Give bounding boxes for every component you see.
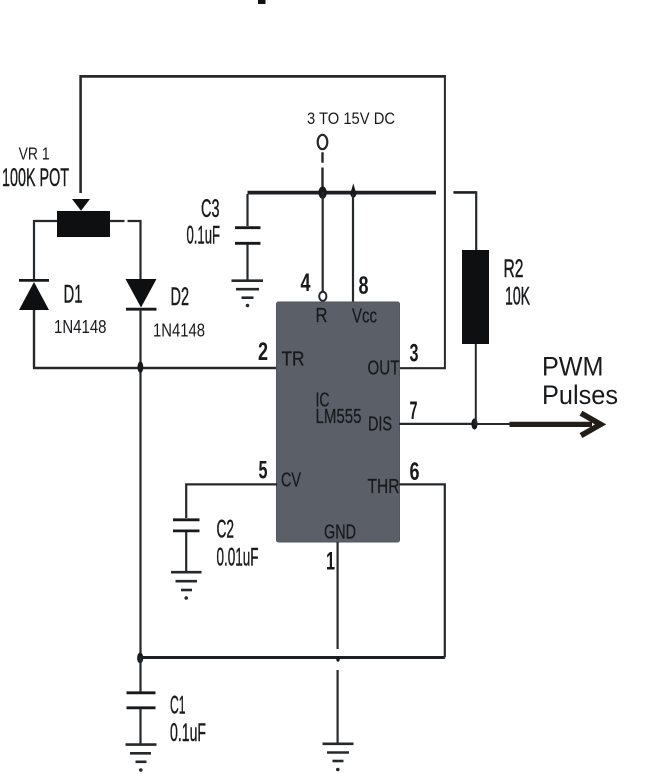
wire: C3 lead from rail	[246, 194, 248, 226]
svg-text:Vcc: Vcc	[352, 306, 377, 328]
resistor R2 body	[462, 250, 489, 344]
wire: C1 top lead	[139, 658, 141, 692]
ground (C1)	[126, 745, 157, 762]
wire: pot right lead (with hop gap) down to D2	[110, 221, 141, 279]
svg-text:OUT: OUT	[368, 358, 400, 380]
wire: DIS pin 7 line	[399, 423, 475, 425]
svg-text:C1: C1	[170, 692, 186, 720]
svg-text:0.1uF: 0.1uF	[187, 222, 221, 250]
svg-text:3 TO 15V DC: 3 TO 15V DC	[307, 109, 395, 128]
wire: TR line to IC pin 2	[33, 367, 277, 370]
wire: GND pin 1 lead down	[337, 542, 339, 743]
svg-text:Pulses: Pulses	[542, 380, 618, 410]
junction node on Vcc rail (pin 4 feed)	[318, 186, 326, 198]
svg-text:100K POT: 100K POT	[2, 164, 69, 192]
svg-text:PWM: PWM	[542, 352, 604, 382]
svg-text:DIS: DIS	[368, 414, 392, 436]
wire: dashed lead from terminal to Vcc rail	[321, 152, 323, 192]
wire: bottom rail	[141, 656, 445, 659]
ground (C2)	[171, 572, 202, 590]
wire: pin 4 lead	[322, 192, 324, 292]
wire: Vcc rail	[248, 191, 437, 195]
svg-text:D1: D1	[64, 281, 83, 309]
capacitor C1 plates	[127, 691, 156, 694]
wire: C2 to ground	[185, 532, 187, 571]
capacitor C2 plates	[173, 518, 200, 521]
svg-text:R: R	[316, 305, 328, 327]
svg-text:8: 8	[359, 272, 369, 300]
PWM output arrowhead	[581, 413, 601, 435]
wire: THR pin 6 to bottom rail	[399, 484, 445, 657]
wire: D1 anode down to TR node	[33, 310, 35, 367]
junction node DIS/R2	[471, 418, 477, 429]
diode D1 triangle	[19, 282, 49, 310]
pin 4 entry circle	[319, 292, 326, 301]
svg-text:1N4148: 1N4148	[153, 320, 205, 341]
IC LM555 body	[277, 302, 400, 542]
wire: pot left lead down to D1	[34, 221, 57, 279]
PWM output arrow shaft	[510, 422, 593, 427]
cropped text remnant top	[258, 0, 266, 4]
wire: R2 bottom lead to DIS junction	[475, 344, 477, 424]
svg-text:1N4148: 1N4148	[54, 316, 107, 337]
supply terminal circle	[318, 135, 328, 149]
capacitor C3 plates	[235, 226, 261, 229]
wire: OUT pin3 feedback to pot wiper (right vertical + top horizontal + left vertical)	[81, 75, 446, 369]
wire: C1 to ground	[139, 709, 141, 744]
potentiometer wiper arrow	[72, 199, 90, 211]
wire: C3 to ground	[246, 245, 248, 280]
junction node pin1/bottom rail	[336, 657, 339, 662]
wire: DIS junction to arrow	[475, 423, 514, 425]
diode D2 triangle	[126, 279, 157, 308]
svg-text:6: 6	[410, 458, 420, 486]
potentiometer VR1 body	[57, 211, 110, 237]
svg-text:CV: CV	[281, 470, 301, 492]
svg-text:C2: C2	[217, 516, 235, 544]
svg-text:7: 7	[410, 397, 418, 425]
diode D1 cathode bar	[19, 279, 49, 282]
svg-text:2: 2	[258, 338, 268, 366]
svg-text:R2: R2	[504, 255, 524, 283]
svg-text:0.1uF: 0.1uF	[170, 719, 206, 747]
ground (C3)	[232, 281, 264, 298]
junction node TR/D2	[138, 361, 144, 373]
svg-text:3: 3	[410, 340, 419, 368]
svg-text:C3: C3	[201, 195, 220, 223]
svg-text:VR 1: VR 1	[19, 144, 50, 164]
svg-text:THR: THR	[368, 476, 400, 498]
svg-text:D2: D2	[171, 283, 190, 311]
svg-text:LM555: LM555	[316, 406, 362, 428]
svg-text:1: 1	[326, 548, 335, 576]
wire: CV pin 5 to C2	[186, 484, 277, 518]
svg-text:GND: GND	[324, 522, 356, 544]
ground (pin 1)	[323, 744, 354, 761]
wire: Vcc rail right segment to R2	[453, 191, 476, 194]
svg-text:TR: TR	[282, 349, 305, 371]
junction node bottom rail left	[137, 653, 143, 664]
diode D2 cathode bar	[126, 308, 157, 311]
wire: D2 cathode down to bottom rail	[139, 309, 141, 657]
svg-text:4: 4	[301, 269, 311, 297]
svg-text:5: 5	[259, 457, 268, 485]
arrow junction pin 8 on Vcc rail	[350, 183, 356, 197]
svg-text:0.01uF: 0.01uF	[217, 544, 259, 572]
wire: pin 8 lead	[352, 194, 354, 302]
svg-text:10K: 10K	[505, 283, 530, 311]
